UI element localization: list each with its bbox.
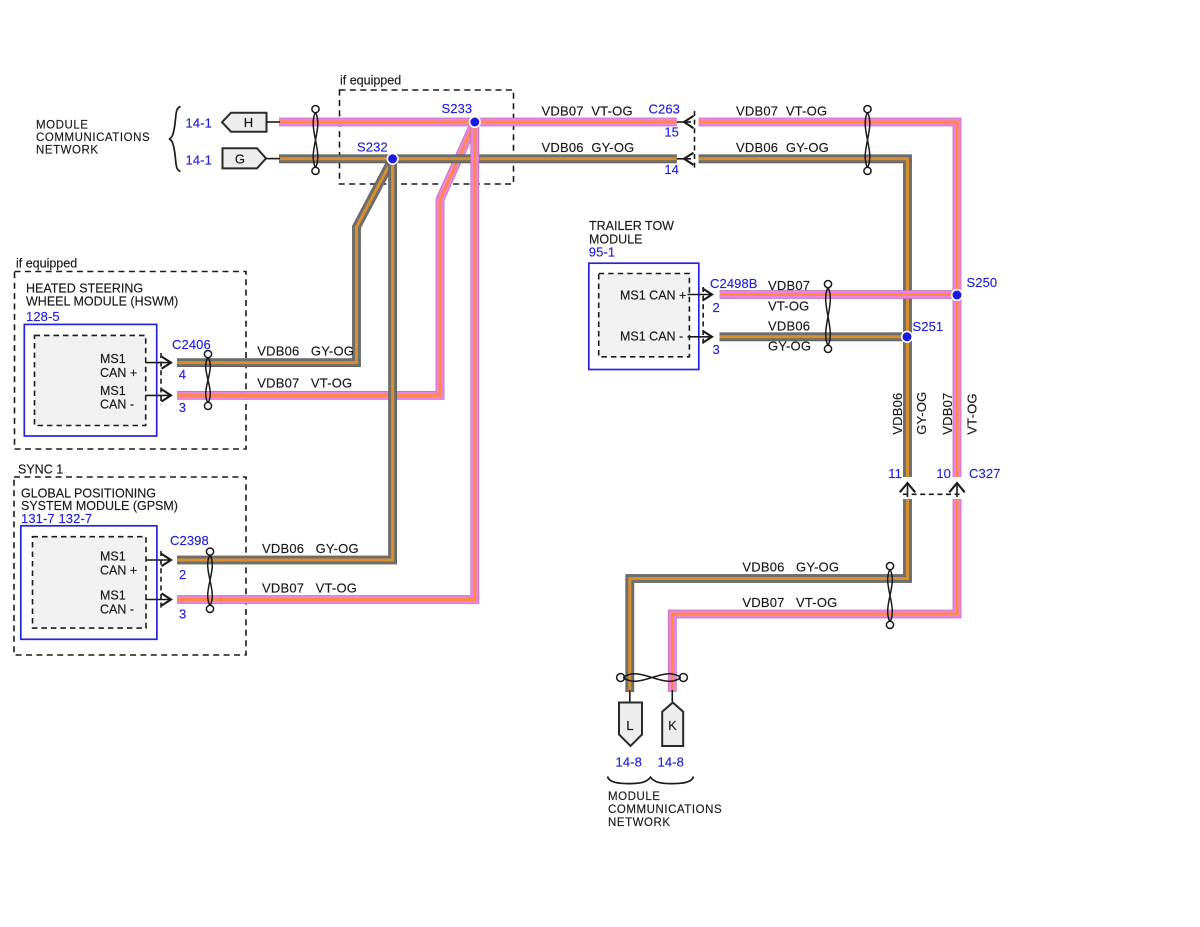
svg-text:VDB06 GY-OG: VDB06 GY-OG xyxy=(262,541,359,556)
connector C263 symbol xyxy=(677,111,695,168)
svg-text:3: 3 xyxy=(179,400,186,415)
svg-text:COMMUNICATIONS: COMMUNICATIONS xyxy=(608,804,722,816)
brace left of 14-1 refs xyxy=(169,107,181,172)
svg-text:WHEEL MODULE (HSWM): WHEEL MODULE (HSWM) xyxy=(26,294,178,308)
svg-text:S232: S232 xyxy=(357,140,388,155)
svg-text:VDB07 VT-OG: VDB07 VT-OG xyxy=(542,104,633,119)
svg-text:128-5: 128-5 xyxy=(26,309,60,324)
svg-text:MODULE: MODULE xyxy=(608,791,661,803)
svg-text:C2406: C2406 xyxy=(172,337,211,352)
connector H xyxy=(222,113,267,132)
connector K xyxy=(662,703,683,747)
wire VDB06 GY-OG from GPSM CAN+ up to splice S232 (vertical x392.6) xyxy=(177,159,393,560)
connector C2498B symbol (arrows + dashed line) xyxy=(688,287,713,345)
svg-text:11: 11 xyxy=(888,466,902,481)
connector C327 symbol (up arrows + dashed line) xyxy=(900,483,965,497)
wire VDB06 GY-OG from trailer tow CAN- to splice S251 xyxy=(720,332,908,341)
wire lead from G xyxy=(266,158,280,160)
svg-text:K: K xyxy=(668,718,677,733)
svg-text:14: 14 xyxy=(664,162,679,177)
twisted pair symbol on top bus left xyxy=(312,106,319,175)
svg-text:GY-OG: GY-OG xyxy=(914,392,929,435)
svg-text:MS1 CAN +: MS1 CAN + xyxy=(620,288,686,302)
svg-text:CAN +: CAN + xyxy=(100,366,137,380)
twisted pair symbol on top bus right xyxy=(864,106,871,175)
svg-text:VDB06 GY-OG: VDB06 GY-OG xyxy=(742,560,839,575)
svg-text:10: 10 xyxy=(936,466,951,481)
svg-text:H: H xyxy=(244,115,254,130)
wire VDB07 VT-OG below C327 pin 10 to connector K xyxy=(672,499,957,692)
svg-text:VDB06: VDB06 xyxy=(890,392,905,434)
svg-text:3: 3 xyxy=(713,342,720,357)
wire VDB07 VT-OG from HSWM CAN- to splice S233 (horizontal y395, vertical x440, diagonal) xyxy=(177,122,475,395)
svg-text:NETWORK: NETWORK xyxy=(608,817,671,829)
svg-text:VDB06 GY-OG: VDB06 GY-OG xyxy=(736,140,829,155)
svg-text:4: 4 xyxy=(179,367,186,382)
svg-text:CAN -: CAN - xyxy=(100,398,134,412)
wire VDB06 GY-OG from HSWM CAN+ to splice S232 (horizontal y362, vertical x356, diagonal) xyxy=(177,159,393,363)
twisted pair symbol bottom right verticals xyxy=(886,563,893,629)
wire VDB06 GY-OG below C327 pin 11 to connector L xyxy=(630,499,908,692)
svg-text:2: 2 xyxy=(713,300,720,315)
svg-text:L: L xyxy=(626,718,633,733)
wire VDB06 GY-OG top bus from C263 pin 14 to C327 pin 11 (corner x907) xyxy=(699,159,908,477)
connector C2398 symbol (arrows + dashed line) xyxy=(146,551,172,609)
svg-text:C263: C263 xyxy=(649,102,680,117)
wire lead to connector L xyxy=(629,690,631,703)
connector G xyxy=(223,148,267,168)
twisted pair symbol at C2398 xyxy=(206,548,213,613)
svg-text:MS1: MS1 xyxy=(100,550,126,564)
splice S250 xyxy=(952,290,963,301)
wire VDB07 VT-OG top bus from C263 pin 15 to C327 pin 10 (corner x957) xyxy=(699,122,958,477)
svg-text:S250: S250 xyxy=(967,275,998,290)
svg-text:15: 15 xyxy=(664,125,679,140)
if equipped dashed box (HSWM, behind wires) xyxy=(15,272,247,450)
svg-text:VDB07 VT-OG: VDB07 VT-OG xyxy=(742,595,837,610)
svg-text:CAN -: CAN - xyxy=(100,602,134,616)
svg-text:95-1: 95-1 xyxy=(589,245,615,260)
splice S233 xyxy=(470,117,481,128)
svg-text:14-1: 14-1 xyxy=(186,116,212,131)
svg-text:S251: S251 xyxy=(913,319,944,334)
svg-text:MS1: MS1 xyxy=(100,384,126,398)
svg-text:VDB07 VT-OG: VDB07 VT-OG xyxy=(736,104,827,119)
svg-text:14-8: 14-8 xyxy=(658,755,684,770)
connector C2406 symbol (arrows + dashed line) xyxy=(146,353,172,405)
splice S232 xyxy=(387,154,398,165)
svg-text:VDB06 GY-OG: VDB06 GY-OG xyxy=(542,140,635,155)
svg-text:VT-OG: VT-OG xyxy=(768,299,809,314)
svg-text:GY-OG: GY-OG xyxy=(768,339,811,354)
wire VDB07 VT-OG from trailer tow CAN+ to splice S250 xyxy=(720,290,958,299)
svg-text:C327: C327 xyxy=(969,466,1000,481)
svg-text:14-8: 14-8 xyxy=(616,755,642,770)
svg-text:VDB07: VDB07 xyxy=(940,392,955,434)
connector L xyxy=(619,703,642,747)
svg-text:CAN +: CAN + xyxy=(100,563,137,577)
svg-text:VDB07 VT-OG: VDB07 VT-OG xyxy=(262,580,357,595)
svg-text:SYNC 1: SYNC 1 xyxy=(18,463,63,477)
svg-text:VDB07 VT-OG: VDB07 VT-OG xyxy=(257,376,352,391)
wire VDB07 VT-OG from GPSM CAN- up to splice S233 (vertical x474.8) xyxy=(177,122,475,600)
svg-text:VDB06 GY-OG: VDB06 GY-OG xyxy=(257,344,354,359)
if equipped dashed box (top, behind wires) xyxy=(340,90,514,184)
svg-text:VDB06: VDB06 xyxy=(768,319,810,334)
wire VDB06 GY-OG top bus from connector G to C263 pin 14 xyxy=(279,154,677,163)
svg-text:VDB07: VDB07 xyxy=(768,278,810,293)
svg-text:S233: S233 xyxy=(442,101,473,116)
wire lead to connector K xyxy=(671,690,673,703)
svg-text:VT-OG: VT-OG xyxy=(965,393,980,434)
svg-text:MODULE: MODULE xyxy=(36,119,89,131)
svg-text:131-7 132-7: 131-7 132-7 xyxy=(21,511,92,526)
svg-text:TRAILER TOW: TRAILER TOW xyxy=(589,219,674,233)
svg-text:2: 2 xyxy=(179,567,186,582)
svg-text:NETWORK: NETWORK xyxy=(36,144,99,156)
svg-text:if equipped: if equipped xyxy=(16,257,77,271)
wire lead from H xyxy=(267,121,281,123)
svg-text:14-1: 14-1 xyxy=(186,153,212,168)
svg-text:MS1: MS1 xyxy=(100,589,126,603)
svg-text:COMMUNICATIONS: COMMUNICATIONS xyxy=(36,132,150,144)
brace under 14-8 refs xyxy=(608,777,694,784)
svg-text:MS1 CAN -: MS1 CAN - xyxy=(620,330,683,344)
svg-text:3: 3 xyxy=(179,607,186,622)
svg-text:if equipped: if equipped xyxy=(340,74,401,88)
svg-text:G: G xyxy=(235,152,245,167)
splice S251 xyxy=(902,332,913,343)
twisted pair symbol trailer tow xyxy=(824,281,831,353)
wire VDB07 VT-OG top bus from connector H to C263 pin 15 xyxy=(279,118,677,127)
svg-text:MS1: MS1 xyxy=(100,352,126,366)
horizontal twisted pair symbol above connectors L and K xyxy=(617,674,688,682)
svg-text:C2498B: C2498B xyxy=(710,276,758,291)
SYNC 1 dashed box (GPSM, behind wires) xyxy=(14,477,246,655)
svg-text:C2398: C2398 xyxy=(170,533,209,548)
twisted pair symbol at C2406 xyxy=(204,351,211,410)
